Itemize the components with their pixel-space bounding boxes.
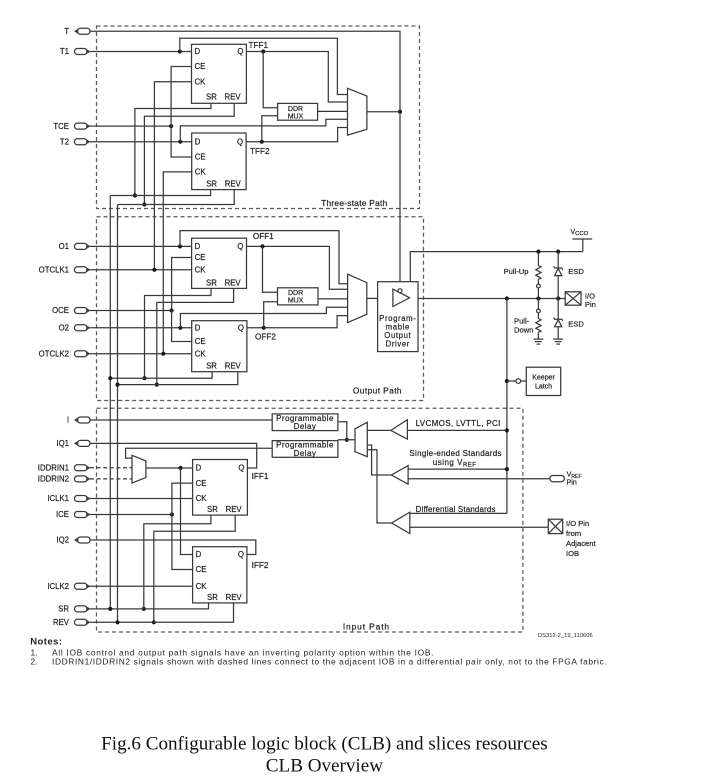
svg-text:Delay: Delay xyxy=(294,422,317,431)
wire T1 bypass to mux input 1 xyxy=(180,38,348,94)
svg-text:CK: CK xyxy=(196,582,208,591)
svg-text:I/O: I/O xyxy=(585,291,595,300)
svg-text:ESD: ESD xyxy=(568,320,584,329)
svg-text:CE: CE xyxy=(196,479,207,488)
wire SR line xyxy=(90,603,209,609)
svg-text:OFF2: OFF2 xyxy=(255,333,276,342)
svg-text:TFF2: TFF2 xyxy=(250,147,270,156)
node OFF1.Q junction xyxy=(260,244,264,248)
wire T2 to TFF2.D xyxy=(90,141,192,143)
svg-text:CLB Overview: CLB Overview xyxy=(266,756,383,776)
pad OTCLK2 xyxy=(75,351,91,357)
flip-flop IFF2 xyxy=(193,547,247,603)
svg-text:D: D xyxy=(195,47,201,56)
wire OFF2.Q to mux input 5 xyxy=(247,316,348,328)
buffer U8 differential xyxy=(392,512,410,533)
pad I xyxy=(74,417,90,423)
wire delay 1 input xyxy=(338,422,347,440)
svg-text:ESD: ESD xyxy=(568,267,584,276)
node T2 junction xyxy=(178,140,182,144)
svg-text:I: I xyxy=(67,416,69,425)
node OFF2.SR to SR bus xyxy=(108,376,112,380)
svg-text:SR: SR xyxy=(206,362,217,371)
wire buffer3 signal input xyxy=(410,512,507,514)
svg-text:T2: T2 xyxy=(60,137,69,146)
wire O1 to OFF1.D xyxy=(90,245,192,247)
DDR MUX 1 xyxy=(278,103,318,120)
programmable output driver U3 xyxy=(378,282,418,352)
wire mux 1 output xyxy=(367,111,400,113)
wire IDDR mux output to IFF1.D xyxy=(146,467,193,469)
svg-text:Down: Down xyxy=(514,325,533,334)
wire TFF1.Q to DDR mux input 1 xyxy=(263,52,277,108)
wire TFF1.SR return xyxy=(135,103,211,195)
wire ICLK2 to IFF2.CK xyxy=(90,585,193,587)
pad ICE xyxy=(75,512,91,518)
svg-text:IDDRIN1/IDDRIN2 signals shown: IDDRIN1/IDDRIN2 signals shown with dashe… xyxy=(52,657,607,667)
node OFF2.Q junction xyxy=(262,326,266,330)
wire IQ2 from IFF2.Q xyxy=(90,540,256,555)
svg-text:Q: Q xyxy=(237,242,243,251)
svg-text:IQ2: IQ2 xyxy=(56,536,69,545)
svg-text:LVCMOS, LVTTL, PCI: LVCMOS, LVTTL, PCI xyxy=(416,419,501,428)
wire ICE xyxy=(90,514,172,516)
svg-text:REV: REV xyxy=(226,505,243,514)
wire OTCLK2 to TFF2.CK xyxy=(163,172,191,354)
wire OFF1.Q to mux input 2 xyxy=(247,246,348,289)
wire buffer2 output to input mux xyxy=(367,445,391,475)
svg-text:IFF2: IFF2 xyxy=(252,561,269,570)
wire TFF2.Q to DDR mux input 2 xyxy=(262,116,278,142)
node OFF1.REV join xyxy=(155,383,159,387)
wire I from delay 1 xyxy=(90,419,272,421)
pad SR xyxy=(75,606,91,612)
input path dashed border xyxy=(97,408,523,632)
wire TFF1.Q to mux input 2 xyxy=(246,52,347,103)
DDR MUX 2 xyxy=(278,288,319,305)
svg-text:T1: T1 xyxy=(60,47,69,56)
svg-text:Notes:: Notes: xyxy=(30,637,62,648)
svg-text:CE: CE xyxy=(196,565,207,574)
node OTCLK1 junction xyxy=(152,268,156,272)
svg-text:D: D xyxy=(195,137,201,146)
node keeper branch xyxy=(505,379,509,383)
svg-text:Differential Standards: Differential Standards xyxy=(416,505,496,514)
VREF pin pad xyxy=(550,476,565,482)
wire REV line xyxy=(90,603,234,622)
wire IQ1 from IFF1.Q xyxy=(90,443,257,468)
wire TCE to TFF1.CE and TFF2.CE xyxy=(171,67,192,158)
node OFF1.SR join xyxy=(142,376,146,380)
wire IDDRIN2 (dashed) xyxy=(90,478,132,480)
svg-text:Q: Q xyxy=(238,324,244,333)
svg-text:REV: REV xyxy=(225,93,242,102)
svg-text:REV: REV xyxy=(225,362,242,371)
wire DDR mux 1 output to mux input 3 xyxy=(318,110,348,112)
wire buffer3 output to input mux xyxy=(367,450,391,523)
svg-text:Keeper: Keeper xyxy=(532,375,555,382)
svg-text:OFF1: OFF1 xyxy=(253,232,274,241)
diode ESD top xyxy=(557,252,559,268)
wire TFF1.REV return xyxy=(144,103,234,204)
svg-text:REV: REV xyxy=(225,278,242,287)
pad O1 xyxy=(75,243,91,249)
wire ICE to IFF1.CE and IFF2.CE xyxy=(172,483,193,569)
wire IFF1.REV return xyxy=(154,515,235,622)
svg-text:OCE: OCE xyxy=(52,306,69,315)
ground (pull-down) xyxy=(533,338,543,340)
svg-text:Output Path: Output Path xyxy=(353,385,402,395)
svg-text:DDR: DDR xyxy=(288,290,303,297)
svg-text:IFF1: IFF1 xyxy=(252,472,269,481)
wire DDR mux 2 output to mux input 3 xyxy=(318,298,348,300)
svg-text:Three-state Path: Three-state Path xyxy=(321,198,387,208)
I/O pin from adjacent IOB pad xyxy=(548,519,562,533)
svg-text:CE: CE xyxy=(195,253,206,262)
wire OCE xyxy=(90,310,172,312)
svg-text:ICE: ICE xyxy=(56,510,69,519)
wire VCCO rail xyxy=(410,252,583,282)
svg-text:Single-ended Standards: Single-ended Standards xyxy=(409,449,501,458)
pad ICLK1 xyxy=(75,496,91,502)
node O1 junction xyxy=(178,244,182,248)
svg-text:SR: SR xyxy=(207,505,218,514)
svg-text:from: from xyxy=(566,529,581,538)
svg-text:Q: Q xyxy=(238,550,244,559)
node ESD top to rail xyxy=(556,250,560,254)
wire VREF input xyxy=(408,478,550,480)
mux U5 (IDDR input mux) xyxy=(132,455,146,483)
svg-text:CK: CK xyxy=(195,78,207,87)
svg-text:2.: 2. xyxy=(31,657,38,667)
svg-text:Pin: Pin xyxy=(567,479,577,486)
wire TFF2.SR return xyxy=(110,190,210,196)
wire I/O output line xyxy=(418,298,565,300)
wire O2 to OFF2.D xyxy=(90,327,192,329)
svg-text:I/O Pin: I/O Pin xyxy=(566,519,589,528)
node TFF1.Q junction xyxy=(261,49,265,53)
svg-text:TFF1: TFF1 xyxy=(249,41,269,50)
wire TFF2.REV return xyxy=(118,190,235,205)
node TCE junction xyxy=(169,124,173,128)
svg-text:OTCLK2: OTCLK2 xyxy=(39,349,69,358)
svg-text:CK: CK xyxy=(196,494,208,503)
svg-text:D: D xyxy=(195,242,201,251)
wire ICLK1 to IFF1.CK xyxy=(90,498,193,500)
svg-text:Pin: Pin xyxy=(585,300,596,309)
node keeper junction xyxy=(505,296,509,300)
svg-text:D: D xyxy=(195,324,201,333)
pad REV xyxy=(75,619,91,625)
svg-text:MUX: MUX xyxy=(288,113,304,120)
wire OFF2.REV return xyxy=(118,372,238,385)
wire TFF2.Q to mux input 5 xyxy=(246,128,347,142)
wire buffer1 input from pin xyxy=(407,429,507,431)
pad T xyxy=(74,28,90,34)
pad O2 xyxy=(75,325,91,331)
wire buffer1 output to input mux xyxy=(367,429,391,431)
flip-flop IFF1 xyxy=(193,460,248,516)
node TFF2.Q junction xyxy=(260,140,264,144)
wire OTCLK2 to OFF2.CK xyxy=(90,353,192,355)
node buffer2 pin junction xyxy=(505,467,509,471)
mux U1 (three-state mux) xyxy=(348,88,367,135)
svg-text:Driver: Driver xyxy=(386,340,410,349)
svg-text:T: T xyxy=(64,27,69,36)
inverter bubble on driver enable xyxy=(398,289,402,293)
node delay join xyxy=(345,438,349,442)
output path dashed border xyxy=(97,217,424,401)
svg-text:SR: SR xyxy=(206,180,217,189)
svg-text:O2: O2 xyxy=(59,324,69,333)
wire REV bus vertical xyxy=(117,205,119,623)
buffer triangle in driver xyxy=(393,289,410,306)
wire T2 bypass to mux input 4 xyxy=(180,119,347,142)
node SR bus join xyxy=(108,607,112,611)
resistor pull-up xyxy=(537,252,539,266)
svg-text:Pull-Up: Pull-Up xyxy=(504,267,529,276)
svg-text:Fig.6 Configurable logic block: Fig.6 Configurable logic block (CLB) and… xyxy=(101,734,547,755)
wire buffer2 signal input xyxy=(408,468,507,470)
node OFF2.REV to REV bus xyxy=(115,383,119,387)
svg-text:Q: Q xyxy=(237,137,243,146)
three-state path dashed border xyxy=(97,26,420,209)
svg-text:Delay: Delay xyxy=(294,449,317,458)
wire to keeper latch xyxy=(507,380,516,382)
wire OFF1.SR return xyxy=(145,288,212,378)
diode ESD bottom xyxy=(557,299,559,320)
wire OCE to OFF1.CE and OFF2.CE xyxy=(172,258,192,342)
node OTCLK2 junction xyxy=(161,352,165,356)
pad T1 xyxy=(75,49,91,55)
node ICE junction xyxy=(170,512,174,516)
svg-text:Latch: Latch xyxy=(535,384,552,391)
pad OCE xyxy=(75,308,91,314)
mux U4 (input path mux) xyxy=(355,422,367,457)
programmable delay 2 xyxy=(272,441,338,458)
svg-text:CE: CE xyxy=(195,337,206,346)
svg-text:REV: REV xyxy=(225,180,242,189)
wire SR bus vertical xyxy=(109,196,111,609)
svg-text:DS312-2_19_110606: DS312-2_19_110606 xyxy=(538,633,593,639)
node TFF1.REV join xyxy=(142,202,146,206)
svg-text:SR: SR xyxy=(206,93,217,102)
node TFF1.SR join xyxy=(133,193,137,197)
flip-flop TFF2 xyxy=(192,133,246,190)
svg-text:Adjacent: Adjacent xyxy=(566,539,596,548)
svg-text:Input Path: Input Path xyxy=(343,622,390,632)
svg-text:D: D xyxy=(196,550,202,559)
svg-text:CK: CK xyxy=(195,266,207,275)
node IFF1.SR to SR line xyxy=(142,607,146,611)
pad TCE xyxy=(75,123,91,129)
mux U2 (output mux) xyxy=(348,274,367,322)
svg-text:Pull-: Pull- xyxy=(514,317,530,326)
svg-text:Q: Q xyxy=(237,47,243,56)
node REV bus join xyxy=(115,620,119,624)
svg-text:ICLK1: ICLK1 xyxy=(47,494,69,503)
I/O pin pad xyxy=(565,292,581,305)
pad IDDRIN1 xyxy=(75,465,91,471)
node IFF1.REV to REV line xyxy=(152,620,156,624)
node T1 junction xyxy=(178,49,182,53)
wire OFF2.SR return xyxy=(110,372,212,379)
wire OTCLK1 to OFF1.CK xyxy=(90,269,192,271)
pad OTCLK1 xyxy=(75,267,91,273)
wire delay 2 output to IDDR mux xyxy=(126,448,273,458)
svg-text:SR: SR xyxy=(206,278,217,287)
wire input mux output to delay 2 xyxy=(338,439,355,441)
svg-text:IDDRIN1: IDDRIN1 xyxy=(38,464,69,473)
pad IDDRIN2 xyxy=(75,476,91,482)
wire T1 to TFF1.D xyxy=(90,51,192,53)
wire to IFF2.D xyxy=(181,468,193,555)
wire mux 2 output to driver xyxy=(367,297,378,299)
pad IQ2 xyxy=(74,537,90,543)
svg-text:SR: SR xyxy=(207,593,218,602)
svg-text:TCE: TCE xyxy=(53,122,69,131)
wire IDDRIN1 (dashed) xyxy=(90,467,132,469)
svg-text:D: D xyxy=(196,464,202,473)
ground (ESD) xyxy=(553,338,563,340)
svg-text:CK: CK xyxy=(195,349,207,358)
wire OFF1.REV return xyxy=(157,288,234,384)
wire O2 bypass to mux input 4 xyxy=(180,307,347,328)
svg-text:O1: O1 xyxy=(59,242,69,251)
wire OFF2.Q to DDR mux 2 input 2 xyxy=(264,302,278,328)
svg-text:CK: CK xyxy=(195,168,207,177)
svg-text:SR: SR xyxy=(58,605,69,614)
svg-text:OTCLK1: OTCLK1 xyxy=(39,266,69,275)
svg-text:VCCO: VCCO xyxy=(571,229,589,237)
node O2 junction xyxy=(178,326,182,330)
svg-text:IQ1: IQ1 xyxy=(56,439,69,448)
node pull-up junction xyxy=(536,296,540,300)
wire keeper vertical xyxy=(506,299,508,514)
wire T (bypass to output node) xyxy=(90,31,400,288)
svg-text:ICLK2: ICLK2 xyxy=(47,582,69,591)
node IFF D junction xyxy=(178,466,182,470)
power VCCO stem xyxy=(572,238,592,240)
node buffer1 pin junction xyxy=(505,428,509,432)
programmable delay 1 xyxy=(272,414,338,431)
wire OTCLK1 to TFF1.CK xyxy=(154,82,191,270)
pad T2 xyxy=(75,139,91,145)
flip-flop TFF1 xyxy=(192,44,247,103)
buffer U7 single-ended VREF xyxy=(391,466,408,485)
flip-flop OFF1 xyxy=(192,238,247,288)
svg-text:CE: CE xyxy=(195,153,206,162)
svg-text:IDDRIN2: IDDRIN2 xyxy=(38,475,69,484)
svg-text:MUX: MUX xyxy=(288,298,304,305)
node pull-up to rail xyxy=(536,250,540,254)
svg-text:using VREF: using VREF xyxy=(433,458,477,469)
svg-text:IOB: IOB xyxy=(566,549,579,558)
wire TCE xyxy=(90,125,171,127)
resistor pull-down xyxy=(537,299,539,310)
wire OFF1.Q to DDR mux 2 input 1 xyxy=(263,246,278,292)
keeper latch box xyxy=(526,367,560,395)
pad ICLK2 xyxy=(75,583,91,589)
pad IQ1 xyxy=(74,440,90,446)
svg-text:REV: REV xyxy=(53,618,70,627)
svg-text:CE: CE xyxy=(195,62,206,71)
svg-text:Q: Q xyxy=(238,464,244,473)
wire IFF1.SR return xyxy=(144,515,211,609)
wire O1 bypass to mux input 1 xyxy=(180,231,348,284)
node T-mux-out junction xyxy=(398,110,402,114)
node ESD junction xyxy=(556,296,560,300)
svg-text:DDR: DDR xyxy=(288,106,303,113)
wire buffer3 adjacent input xyxy=(410,526,549,528)
node OCE junction xyxy=(170,308,174,312)
buffer U6 LVCMOS xyxy=(391,420,408,439)
svg-text:REV: REV xyxy=(226,593,243,602)
flip-flop OFF2 xyxy=(192,321,247,372)
